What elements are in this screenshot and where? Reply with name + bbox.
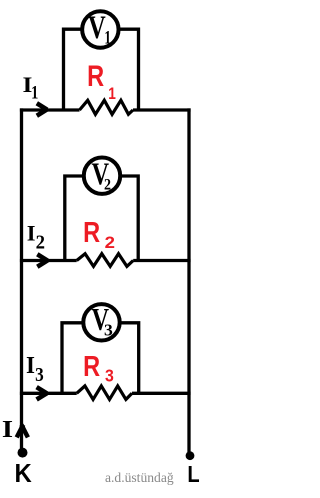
svg-text:2: 2 (36, 232, 45, 253)
svg-text:3: 3 (35, 364, 44, 385)
svg-text:I: I (2, 415, 13, 443)
svg-text:a.d.üstündağ: a.d.üstündağ (105, 470, 174, 485)
svg-text:3: 3 (104, 320, 113, 340)
svg-text:R: R (83, 216, 100, 249)
svg-text:1: 1 (108, 84, 116, 103)
svg-text:3: 3 (105, 366, 114, 386)
svg-text:2: 2 (104, 176, 111, 194)
svg-text:R: R (87, 59, 104, 92)
svg-text:V: V (88, 10, 106, 46)
svg-text:K: K (14, 459, 31, 488)
svg-text:I: I (27, 220, 36, 245)
svg-text:1: 1 (104, 28, 111, 48)
svg-text:1: 1 (31, 82, 38, 103)
svg-text:2: 2 (105, 233, 116, 252)
svg-text:R: R (83, 350, 100, 383)
svg-text:L: L (187, 460, 199, 487)
svg-text:I: I (26, 353, 35, 380)
